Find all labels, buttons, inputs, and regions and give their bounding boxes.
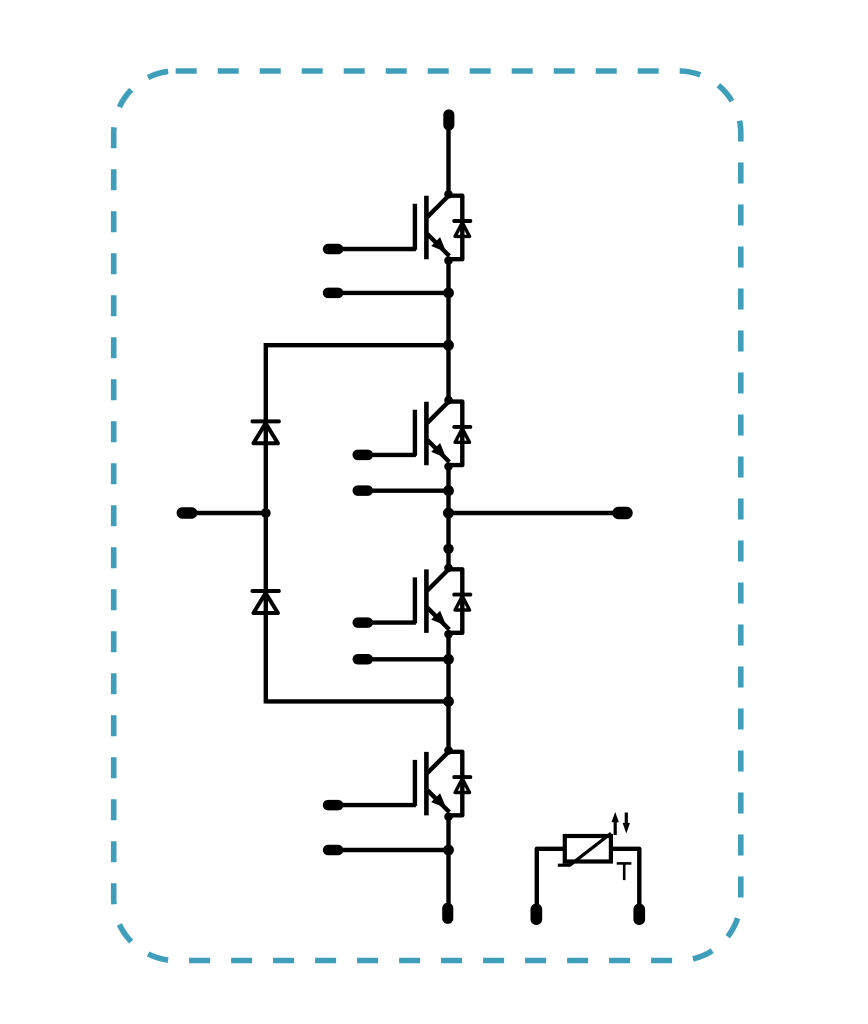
wire: rail AC node to Q3 collector — [446, 513, 450, 568]
terminal: AC output (right) — [612, 507, 632, 519]
transistor Q3 (IGBT) — [415, 564, 453, 639]
diode D4 (antiparallel with Q4) — [449, 752, 471, 816]
wire: rail Q1 emitter to clamp tap — [446, 261, 450, 346]
node: neutral junction on clamp branch — [261, 508, 271, 518]
wire: AC output to right terminal — [449, 511, 614, 515]
wire: thermistor right lead — [611, 849, 639, 905]
wire: bottom rail — [446, 817, 450, 906]
terminal: auxiliary emitter pin of Q3 — [353, 654, 374, 665]
wire: rail Q2 collector up — [446, 345, 450, 400]
terminal: thermistor pin 2 — [633, 904, 645, 926]
thermistor RT1 body — [558, 833, 611, 865]
wire: gate of Q4 — [333, 803, 416, 807]
node: series connection point — [443, 544, 453, 554]
symbol: up arrow (resistance variation) — [612, 812, 619, 835]
node: clamp branch top junction — [443, 340, 454, 351]
node: auxiliary emitter junction of Q3 — [443, 654, 454, 665]
terminal: gate pin of Q2 — [353, 450, 374, 461]
terminal: auxiliary emitter pin of Q1 — [323, 288, 344, 299]
node: AC output junction — [443, 508, 454, 519]
wire: auxiliary emitter of Q4 — [333, 848, 448, 852]
transistor Q2 (IGBT) — [415, 396, 453, 471]
wire: rail Q2 emitter to AC node — [446, 467, 450, 514]
terminal: gate pin of Q1 — [323, 244, 344, 255]
terminal 1: DC+ (top) — [443, 109, 454, 130]
terminal: gate pin of Q4 — [323, 800, 344, 811]
node: auxiliary emitter junction of Q2 — [443, 485, 454, 496]
label: T (temperature) — [617, 863, 632, 880]
module outline (dashed rounded border) — [114, 71, 741, 961]
terminal: auxiliary emitter pin of Q2 — [353, 485, 374, 496]
transistor Q4 (IGBT) — [415, 746, 453, 821]
wire: auxiliary emitter of Q1 — [333, 291, 448, 295]
node: clamp branch bottom junction — [443, 696, 454, 707]
wire: clamp branch bottom horizontal — [266, 699, 449, 703]
symbol: down arrow (resistance variation) — [623, 813, 630, 834]
wire: neutral to clamp branch — [187, 511, 266, 515]
wire: clamp branch vertical — [264, 343, 268, 704]
node: auxiliary emitter junction of Q1 — [443, 288, 454, 299]
wire: clamp branch top horizontal — [266, 343, 449, 347]
wire: rail to Q4 collector — [446, 701, 450, 750]
wire: gate of Q1 — [333, 247, 416, 251]
wire: top rail — [446, 128, 450, 194]
terminal: gate pin of Q3 — [353, 617, 374, 628]
terminal: auxiliary emitter pin of Q4 — [323, 845, 344, 856]
wire: thermistor left lead — [537, 849, 565, 905]
terminal 2: DC- (bottom) — [442, 903, 453, 924]
diode D3 (antiparallel with Q3) — [449, 569, 471, 633]
terminal: thermistor pin 1 — [531, 904, 543, 926]
wire: auxiliary emitter of Q3 — [363, 657, 449, 661]
wire: auxiliary emitter of Q2 — [363, 489, 449, 493]
wire: gate of Q2 — [363, 453, 416, 457]
diode D5 (upper clamp) — [253, 421, 279, 443]
diode D1 (antiparallel with Q1) — [449, 196, 471, 260]
diode D2 (antiparallel with Q2) — [449, 402, 471, 466]
wire: rail Q3 emitter to clamp bottom tap — [446, 634, 450, 701]
wire: gate of Q3 — [363, 620, 416, 624]
diode D6 (lower clamp) — [253, 591, 279, 613]
node: auxiliary emitter junction of Q4 — [443, 845, 454, 856]
transistor Q1 (IGBT) — [415, 190, 453, 265]
terminal: N (neutral, left) — [177, 507, 198, 519]
